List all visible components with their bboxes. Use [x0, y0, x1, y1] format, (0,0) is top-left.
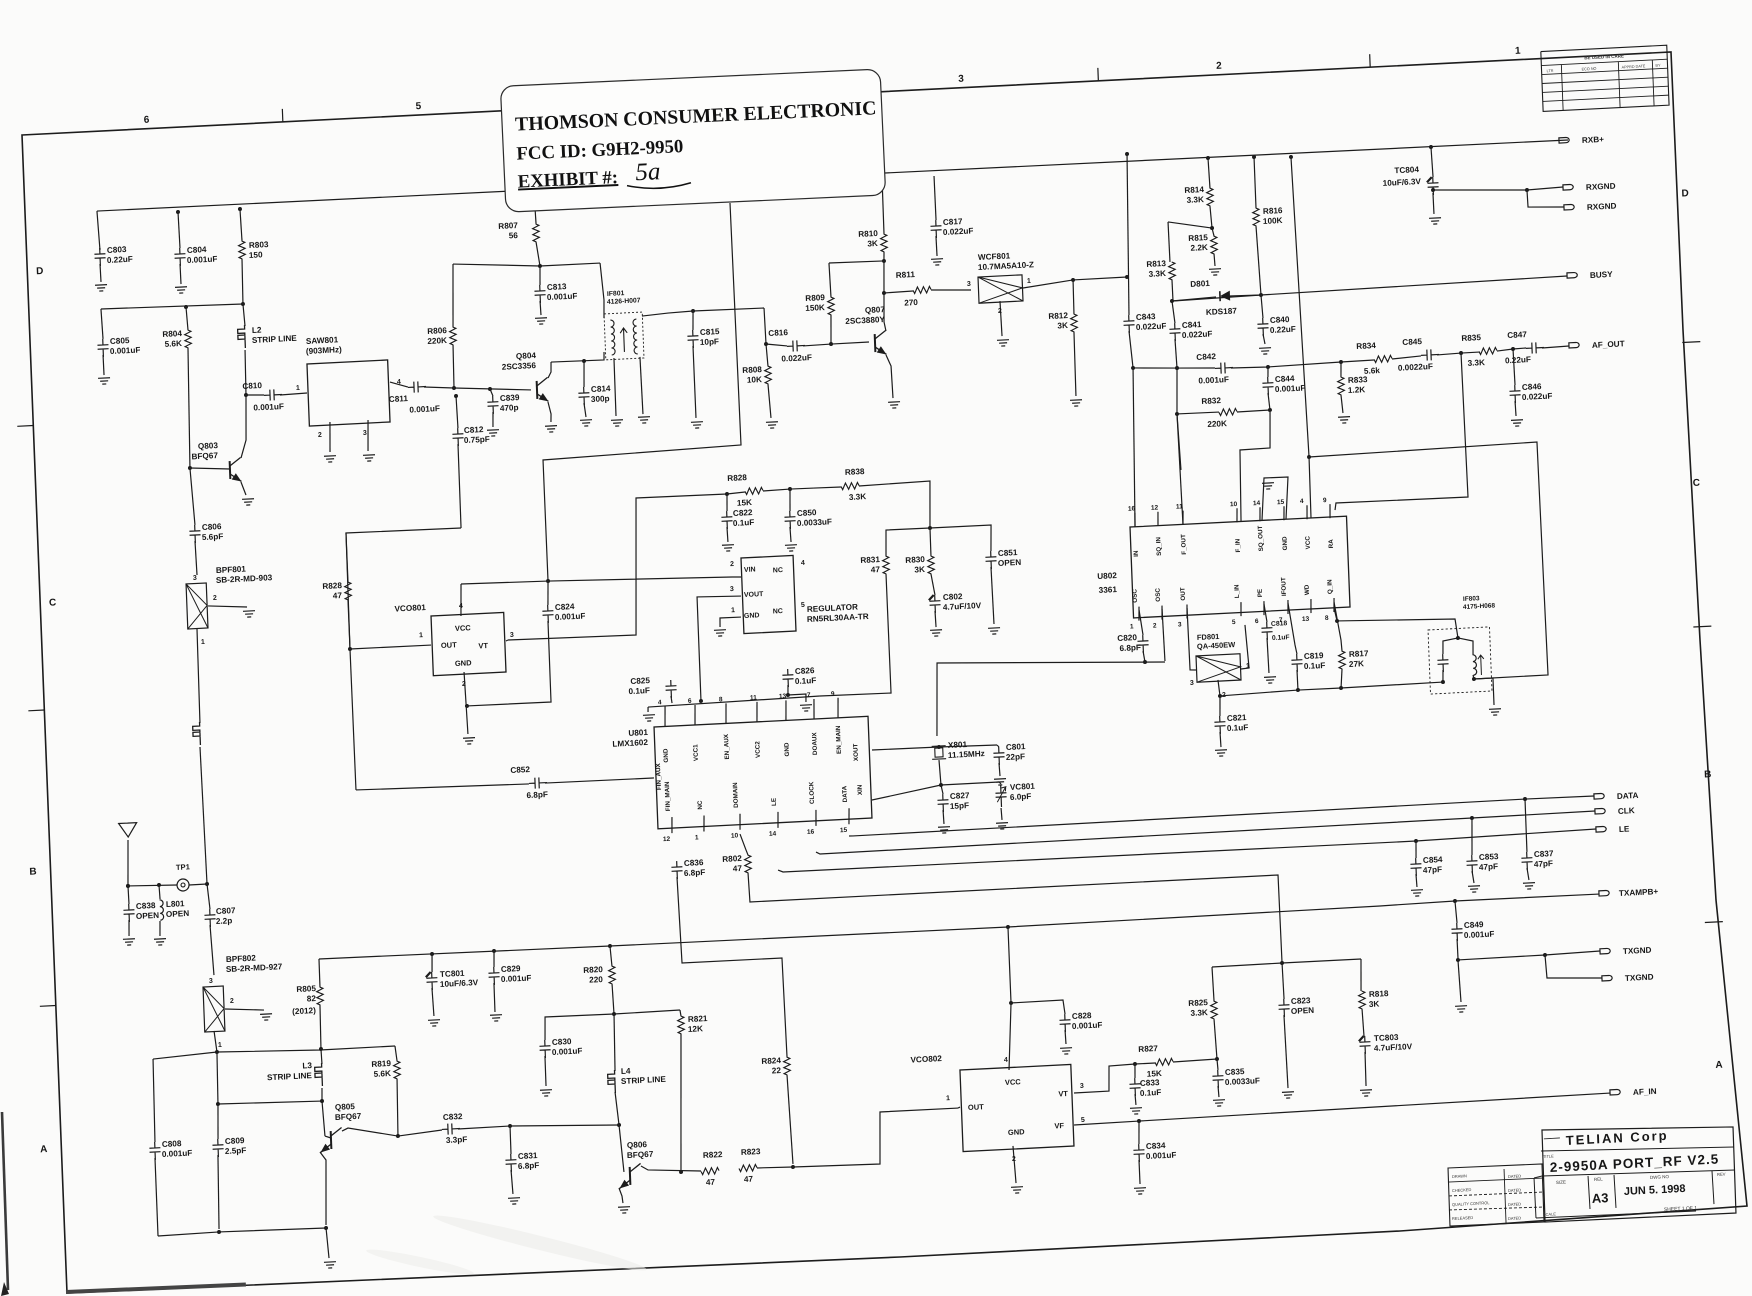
wire pin4 to ground	[647, 707, 649, 712]
svg-text:8: 8	[1325, 615, 1329, 622]
svg-text:10pF: 10pF	[700, 337, 719, 347]
capacitor C832	[398, 1130, 442, 1136]
svg-text:CHECKED: CHECKED	[1452, 1187, 1472, 1193]
svg-text:2: 2	[318, 432, 322, 439]
varicap VC801	[995, 785, 1007, 808]
wire L4 top	[613, 1014, 616, 1071]
capacitor C801	[997, 745, 999, 747]
svg-text:L3: L3	[302, 1061, 312, 1070]
svg-text:0.001uF: 0.001uF	[1198, 375, 1229, 386]
svg-text:R816: R816	[1263, 206, 1283, 216]
wire pin3 OUT down to FD801	[1187, 608, 1196, 671]
node TC801	[430, 952, 434, 956]
node R806-base	[452, 386, 456, 390]
node X801 top	[937, 745, 941, 749]
node R832 right	[1268, 408, 1272, 412]
svg-text:VCO801: VCO801	[394, 603, 426, 614]
wire SAW801 pin2 to ground	[329, 422, 331, 452]
node R835-C847	[1511, 347, 1515, 351]
svg-text:IN: IN	[1133, 550, 1140, 557]
svg-text:BY: BY	[1655, 64, 1661, 68]
node C834	[1137, 1119, 1141, 1123]
wire X801 node to C801	[939, 744, 997, 748]
svg-text:3: 3	[1178, 621, 1182, 628]
ground	[463, 738, 475, 745]
svg-text:GND: GND	[662, 748, 670, 763]
svg-text:0.1uF: 0.1uF	[1227, 723, 1249, 733]
node C829	[492, 949, 496, 953]
node supply-VCC	[1006, 925, 1010, 929]
svg-text:——: ——	[1544, 1133, 1560, 1143]
U802 pin 14 SQ_OUT	[1259, 507, 1260, 521]
svg-text:C832: C832	[443, 1112, 463, 1122]
svg-text:5: 5	[1081, 1117, 1085, 1124]
wire C843 down	[1129, 331, 1133, 368]
ground	[691, 422, 703, 429]
capacitor C831	[510, 1126, 511, 1154]
wire C844 down	[1268, 393, 1270, 410]
svg-text:EN_AUX: EN_AUX	[723, 733, 731, 760]
wire C852 to FIN_AUX	[545, 778, 653, 784]
U801 pin 1 NC	[703, 815, 704, 831]
resistor R811	[884, 291, 913, 293]
wire block top rail	[153, 1043, 395, 1059]
svg-text:C840: C840	[1270, 315, 1290, 325]
svg-text:47: 47	[871, 565, 881, 574]
wire C832 to C831 node	[458, 1121, 619, 1134]
U801 pin 16 CLOCK	[815, 810, 816, 826]
svg-text:47pF: 47pF	[1479, 862, 1498, 872]
svg-text:B: B	[29, 866, 37, 877]
U801 pin 8 EN_AUX	[725, 703, 727, 723]
resistor R807	[534, 192, 536, 224]
capacitor IF802 internal	[1437, 654, 1449, 673]
svg-text:2: 2	[730, 561, 734, 568]
wire antenna to TP1	[128, 883, 177, 887]
svg-text:DOAUX: DOAUX	[811, 731, 819, 755]
svg-text:C823: C823	[1291, 996, 1311, 1006]
terminal RXGND2	[1564, 204, 1574, 210]
svg-text:2.5pF: 2.5pF	[225, 1146, 247, 1156]
terminal RXGND	[1563, 184, 1573, 190]
svg-text:3: 3	[193, 575, 197, 582]
node R833	[1339, 360, 1343, 364]
wire C811 to base node	[424, 386, 454, 390]
border zone ticks left	[17, 425, 33, 428]
wire R823 to R824 node	[757, 1166, 793, 1169]
VCO module VCO801	[431, 612, 506, 675]
ground	[618, 1207, 630, 1214]
svg-text:3K: 3K	[914, 565, 925, 575]
capacitor C841	[1169, 323, 1181, 342]
svg-text:R835: R835	[1461, 333, 1481, 343]
node VCO801 gnd	[465, 704, 469, 708]
resistor R820	[610, 946, 612, 966]
svg-text:R804: R804	[162, 329, 182, 339]
node C854	[1414, 839, 1418, 843]
capacitor C839	[490, 389, 493, 396]
wire U802 pin11 up	[1177, 414, 1183, 525]
wire U802 pin14/15 ground bracket	[1260, 477, 1289, 520]
U802 pin 8 Q_IN	[1333, 598, 1334, 612]
svg-text:4: 4	[658, 699, 662, 706]
node L4 top	[612, 1012, 616, 1016]
wire C847 to AF_OUT	[1542, 346, 1569, 348]
node C809-base	[216, 1102, 220, 1106]
node IF802 bot2	[1472, 677, 1476, 681]
svg-text:F_OUT: F_OUT	[1180, 534, 1188, 555]
svg-text:6.8pF: 6.8pF	[526, 790, 548, 800]
svg-text:BPF802: BPF802	[226, 954, 257, 965]
svg-text:R827: R827	[1138, 1044, 1158, 1054]
svg-text:LE: LE	[1619, 824, 1630, 834]
svg-text:C852: C852	[510, 765, 530, 775]
wire WCF801 out to C843 column	[1023, 277, 1127, 288]
svg-text:5: 5	[1232, 619, 1236, 626]
U802 pin 16 IN	[1134, 513, 1135, 527]
wire CLOCK from U801	[816, 811, 1595, 854]
svg-text:C808: C808	[162, 1139, 182, 1149]
ground	[938, 827, 950, 834]
svg-text:C805: C805	[110, 336, 130, 346]
resistor R802	[744, 855, 751, 873]
svg-text:C846: C846	[1522, 382, 1542, 392]
ground	[1259, 348, 1271, 355]
ground	[324, 456, 336, 463]
wire C845 to node	[1437, 353, 1461, 355]
wire SAW801 pin4 to C811	[390, 381, 408, 388]
svg-text:C847: C847	[1507, 330, 1527, 340]
svg-text:C836: C836	[684, 858, 704, 868]
node C812 top	[454, 394, 458, 398]
svg-text:220: 220	[589, 975, 603, 985]
svg-text:C849: C849	[1464, 920, 1484, 930]
svg-text:L2: L2	[252, 325, 262, 334]
svg-text:RXGND: RXGND	[1587, 201, 1617, 211]
node R808	[764, 342, 768, 346]
svg-text:L_IN: L_IN	[1233, 584, 1241, 598]
svg-text:TC803: TC803	[1374, 1033, 1399, 1043]
node C845-R835	[1459, 351, 1463, 355]
capacitor C837	[1525, 799, 1527, 852]
capacitor C827	[941, 785, 943, 794]
wire R813 node down to C841	[1172, 301, 1175, 323]
wire C805 to ground	[102, 355, 105, 375]
svg-text:OPEN: OPEN	[1291, 1006, 1315, 1016]
wire VCC rail to VIN	[461, 580, 548, 586]
wire R835 to node	[1497, 349, 1513, 351]
wire IF802 ground stem	[1474, 678, 1494, 706]
svg-text:0.001uF: 0.001uF	[253, 402, 284, 413]
ground	[1489, 709, 1501, 716]
wire L2 to C810 node	[244, 350, 247, 395]
ground	[785, 545, 797, 552]
node C828	[1009, 1001, 1013, 1005]
svg-text:CLOCK: CLOCK	[808, 781, 816, 804]
ground	[996, 823, 1008, 830]
svg-text:15pF: 15pF	[950, 801, 969, 811]
capacitor C826	[787, 685, 790, 695]
node C839	[488, 387, 492, 391]
node TP1-column	[205, 882, 209, 886]
svg-text:LE: LE	[771, 798, 778, 806]
node R824	[791, 1165, 795, 1169]
wire AF_OUT chain	[1341, 360, 1374, 362]
transistor Q807	[874, 334, 877, 352]
terminal DATA	[1594, 793, 1604, 799]
svg-text:15: 15	[840, 827, 848, 834]
wire VCO802 VT	[1073, 1064, 1136, 1093]
wire R828-C850 node	[763, 488, 814, 491]
node R814-rail	[1206, 156, 1210, 160]
svg-text:2.2K: 2.2K	[1190, 243, 1208, 253]
svg-text:0.022uF: 0.022uF	[1182, 329, 1213, 340]
svg-text:C851: C851	[998, 548, 1018, 558]
svg-text:C826: C826	[795, 666, 815, 676]
wire C808 left column	[152, 1059, 157, 1142]
svg-text:C819: C819	[1304, 651, 1324, 661]
svg-text:Q803: Q803	[198, 441, 219, 451]
wire OUT column down	[350, 649, 356, 790]
node R830 top	[928, 526, 932, 530]
svg-text:3.3K: 3.3K	[1190, 1008, 1208, 1018]
svg-text:REL: REL	[1594, 1177, 1603, 1182]
ground	[260, 1014, 272, 1021]
wire L4-node to C830	[544, 1014, 615, 1040]
inductor IF802 internal	[1473, 655, 1477, 676]
node VCC col rail	[1289, 155, 1293, 159]
ground	[1511, 420, 1523, 427]
wire RXGND2	[1527, 188, 1564, 209]
node VOUT-rail	[699, 699, 703, 703]
wire Q_IN line to IF802 top	[1334, 602, 1458, 644]
ground	[988, 628, 1000, 635]
svg-text:C831: C831	[518, 1151, 538, 1161]
U801 pin 4 GND	[664, 706, 666, 726]
wire C803 to ground	[99, 264, 102, 282]
svg-text:0.1uF: 0.1uF	[733, 518, 755, 528]
svg-text:U801: U801	[628, 728, 648, 738]
U802 pin 12 SQ_IN	[1157, 512, 1158, 526]
capacitor C842	[1215, 362, 1233, 374]
node C842-left	[1131, 366, 1135, 370]
svg-text:5: 5	[801, 602, 805, 609]
node R832-C841	[1175, 412, 1179, 416]
wire LE from U801	[778, 829, 1596, 873]
svg-text:C830: C830	[552, 1037, 572, 1047]
capacitor C823	[1282, 963, 1284, 999]
node C849	[1453, 899, 1457, 903]
svg-text:C825: C825	[630, 676, 650, 686]
svg-text:0.1uF: 0.1uF	[795, 676, 817, 686]
strip line	[193, 722, 201, 745]
svg-text:R820: R820	[583, 965, 603, 975]
ground	[98, 378, 110, 385]
wire VCC column	[1291, 157, 1311, 519]
svg-text:DATED: DATED	[1508, 1187, 1522, 1193]
svg-text:SCALE: SCALE	[1543, 1211, 1557, 1217]
resistor R832	[1237, 410, 1270, 412]
svg-text:TITLE: TITLE	[1543, 1153, 1554, 1159]
node IF802 top	[1456, 636, 1460, 640]
wire Q805 collector	[342, 1126, 398, 1139]
wire XIN rail	[872, 782, 1000, 800]
svg-text:C812: C812	[464, 425, 484, 435]
capacitor C836	[671, 861, 683, 880]
svg-text:12: 12	[663, 836, 671, 843]
svg-text:22pF: 22pF	[1006, 752, 1025, 762]
svg-text:RXB+: RXB+	[1582, 135, 1605, 145]
svg-text:R817: R817	[1349, 649, 1369, 659]
wire DATA from U801	[849, 796, 1594, 837]
svg-text:C809: C809	[225, 1136, 245, 1146]
svg-text:TC804: TC804	[1394, 165, 1419, 175]
wire XOUT to X801	[872, 747, 939, 751]
node C826	[786, 693, 790, 697]
capacitor C822	[726, 494, 727, 511]
svg-text:3.3K: 3.3K	[1148, 269, 1166, 279]
terminal LE	[1596, 826, 1606, 832]
terminal TXGND2	[1602, 975, 1612, 981]
svg-text:PE: PE	[1257, 589, 1264, 598]
svg-text:GND: GND	[744, 612, 760, 620]
svg-text:R830: R830	[905, 555, 925, 565]
svg-text:GND: GND	[1008, 1127, 1026, 1137]
U801 pin 6 VCC1	[694, 705, 696, 725]
node R813-BUSY	[1170, 299, 1174, 303]
resistor R806	[451, 264, 456, 327]
svg-text:16: 16	[807, 829, 815, 836]
scan artifact left edge	[2, 1112, 8, 1290]
resistor R804	[186, 307, 188, 330]
resistor R814	[1208, 158, 1210, 188]
capacitor C815	[692, 311, 694, 330]
wire antenna stem	[126, 840, 130, 886]
capacitor C807	[207, 884, 210, 909]
svg-text:DATED: DATED	[1508, 1215, 1522, 1221]
wire Q806 collector to R822	[641, 1163, 701, 1174]
capacitor TC801 polarized	[431, 954, 432, 972]
node FD801-2	[1218, 694, 1222, 698]
svg-text:VC801: VC801	[1010, 782, 1036, 792]
wire DOMAIN pin10 to R802	[740, 834, 748, 856]
svg-text:0.22uF: 0.22uF	[107, 255, 133, 265]
crystal X801	[935, 748, 943, 757]
svg-text:VCC: VCC	[1304, 535, 1312, 549]
resistor R828 15K	[745, 487, 763, 494]
svg-text:6: 6	[144, 115, 150, 126]
antenna	[119, 823, 138, 838]
svg-text:R831: R831	[860, 555, 880, 565]
wire AF_OUT node to RA line	[1329, 353, 1468, 510]
node C835	[1215, 1057, 1219, 1061]
svg-text:6.8pF: 6.8pF	[518, 1161, 540, 1171]
svg-text:R819: R819	[371, 1059, 391, 1069]
capacitor C844	[1267, 367, 1270, 377]
svg-text:270: 270	[904, 298, 918, 308]
ground	[123, 939, 135, 946]
ground	[175, 287, 187, 294]
svg-text:C817: C817	[943, 217, 963, 227]
capacitor C814	[583, 361, 585, 387]
resistor R824	[783, 1057, 790, 1075]
svg-text:CLK: CLK	[1618, 806, 1635, 816]
svg-text:0.1uF: 0.1uF	[1140, 1088, 1162, 1098]
node RXGND branch	[1525, 188, 1529, 192]
svg-text:R828: R828	[727, 473, 747, 483]
node C850	[788, 487, 792, 491]
svg-text:LMX1602: LMX1602	[612, 738, 648, 749]
svg-text:0.001uF: 0.001uF	[1072, 1020, 1103, 1031]
ground	[994, 779, 1006, 786]
svg-text:(2012): (2012)	[292, 1006, 316, 1016]
svg-text:0.001uF: 0.001uF	[1464, 930, 1495, 941]
svg-text:0.022uF: 0.022uF	[1522, 391, 1553, 402]
wire emitter to ground	[326, 1228, 329, 1258]
wire BPF801 pin1 down	[196, 628, 200, 723]
svg-text:XOUT: XOUT	[852, 743, 860, 761]
svg-text:3: 3	[363, 430, 367, 437]
svg-text:IF801: IF801	[607, 290, 625, 298]
svg-text:C816: C816	[768, 328, 788, 338]
svg-text:VCC1: VCC1	[692, 744, 700, 762]
transistor Q805	[322, 1101, 325, 1136]
svg-text:220K: 220K	[427, 336, 447, 346]
capacitor C843	[1123, 154, 1134, 315]
wire VCC top rail	[97, 137, 1568, 214]
node C824	[546, 579, 550, 583]
capacitor C846	[1513, 349, 1515, 385]
capacitor C809	[217, 1104, 220, 1139]
svg-text:C811: C811	[389, 394, 409, 404]
capacitor C816	[787, 340, 805, 352]
svg-text:C810: C810	[242, 381, 262, 391]
capacitor C853	[1471, 818, 1474, 855]
wire C812 column	[458, 444, 461, 528]
wire C809 column	[216, 1052, 219, 1104]
svg-text:B: B	[1704, 769, 1712, 780]
node TC804-RXGND	[1431, 188, 1435, 192]
svg-text:TP1: TP1	[176, 862, 190, 872]
resistor R813	[1168, 222, 1170, 262]
wire R805 to node	[319, 1005, 321, 1049]
wire L4-node to R821	[614, 1010, 680, 1014]
wire pin2 OSC down	[1162, 609, 1165, 661]
ground	[888, 402, 900, 409]
wire C820 to left	[1143, 651, 1145, 662]
svg-text:150K: 150K	[805, 303, 825, 313]
svg-text:0.0022uF: 0.0022uF	[1398, 362, 1433, 373]
svg-text:2: 2	[230, 998, 234, 1005]
svg-text:C814: C814	[591, 384, 611, 394]
svg-text:KDS187: KDS187	[1206, 306, 1238, 317]
svg-text:13: 13	[1302, 616, 1310, 623]
svg-text:C827: C827	[950, 791, 970, 801]
svg-text:6.0pF: 6.0pF	[1010, 792, 1032, 802]
svg-text:0.75pF: 0.75pF	[464, 435, 490, 445]
node C815	[691, 309, 695, 313]
svg-text:TC801: TC801	[440, 969, 465, 979]
svg-text:3: 3	[967, 281, 971, 288]
svg-text:0.022uF: 0.022uF	[781, 353, 812, 364]
capacitor C849	[1455, 901, 1457, 923]
svg-text:F_IN: F_IN	[1235, 538, 1243, 552]
svg-text:3.3K: 3.3K	[1467, 358, 1485, 368]
resistor R817	[1334, 602, 1342, 652]
svg-text:R828: R828	[322, 581, 342, 591]
wire base link	[218, 1099, 322, 1107]
wire BPF801 pin2 to ground	[208, 604, 247, 609]
